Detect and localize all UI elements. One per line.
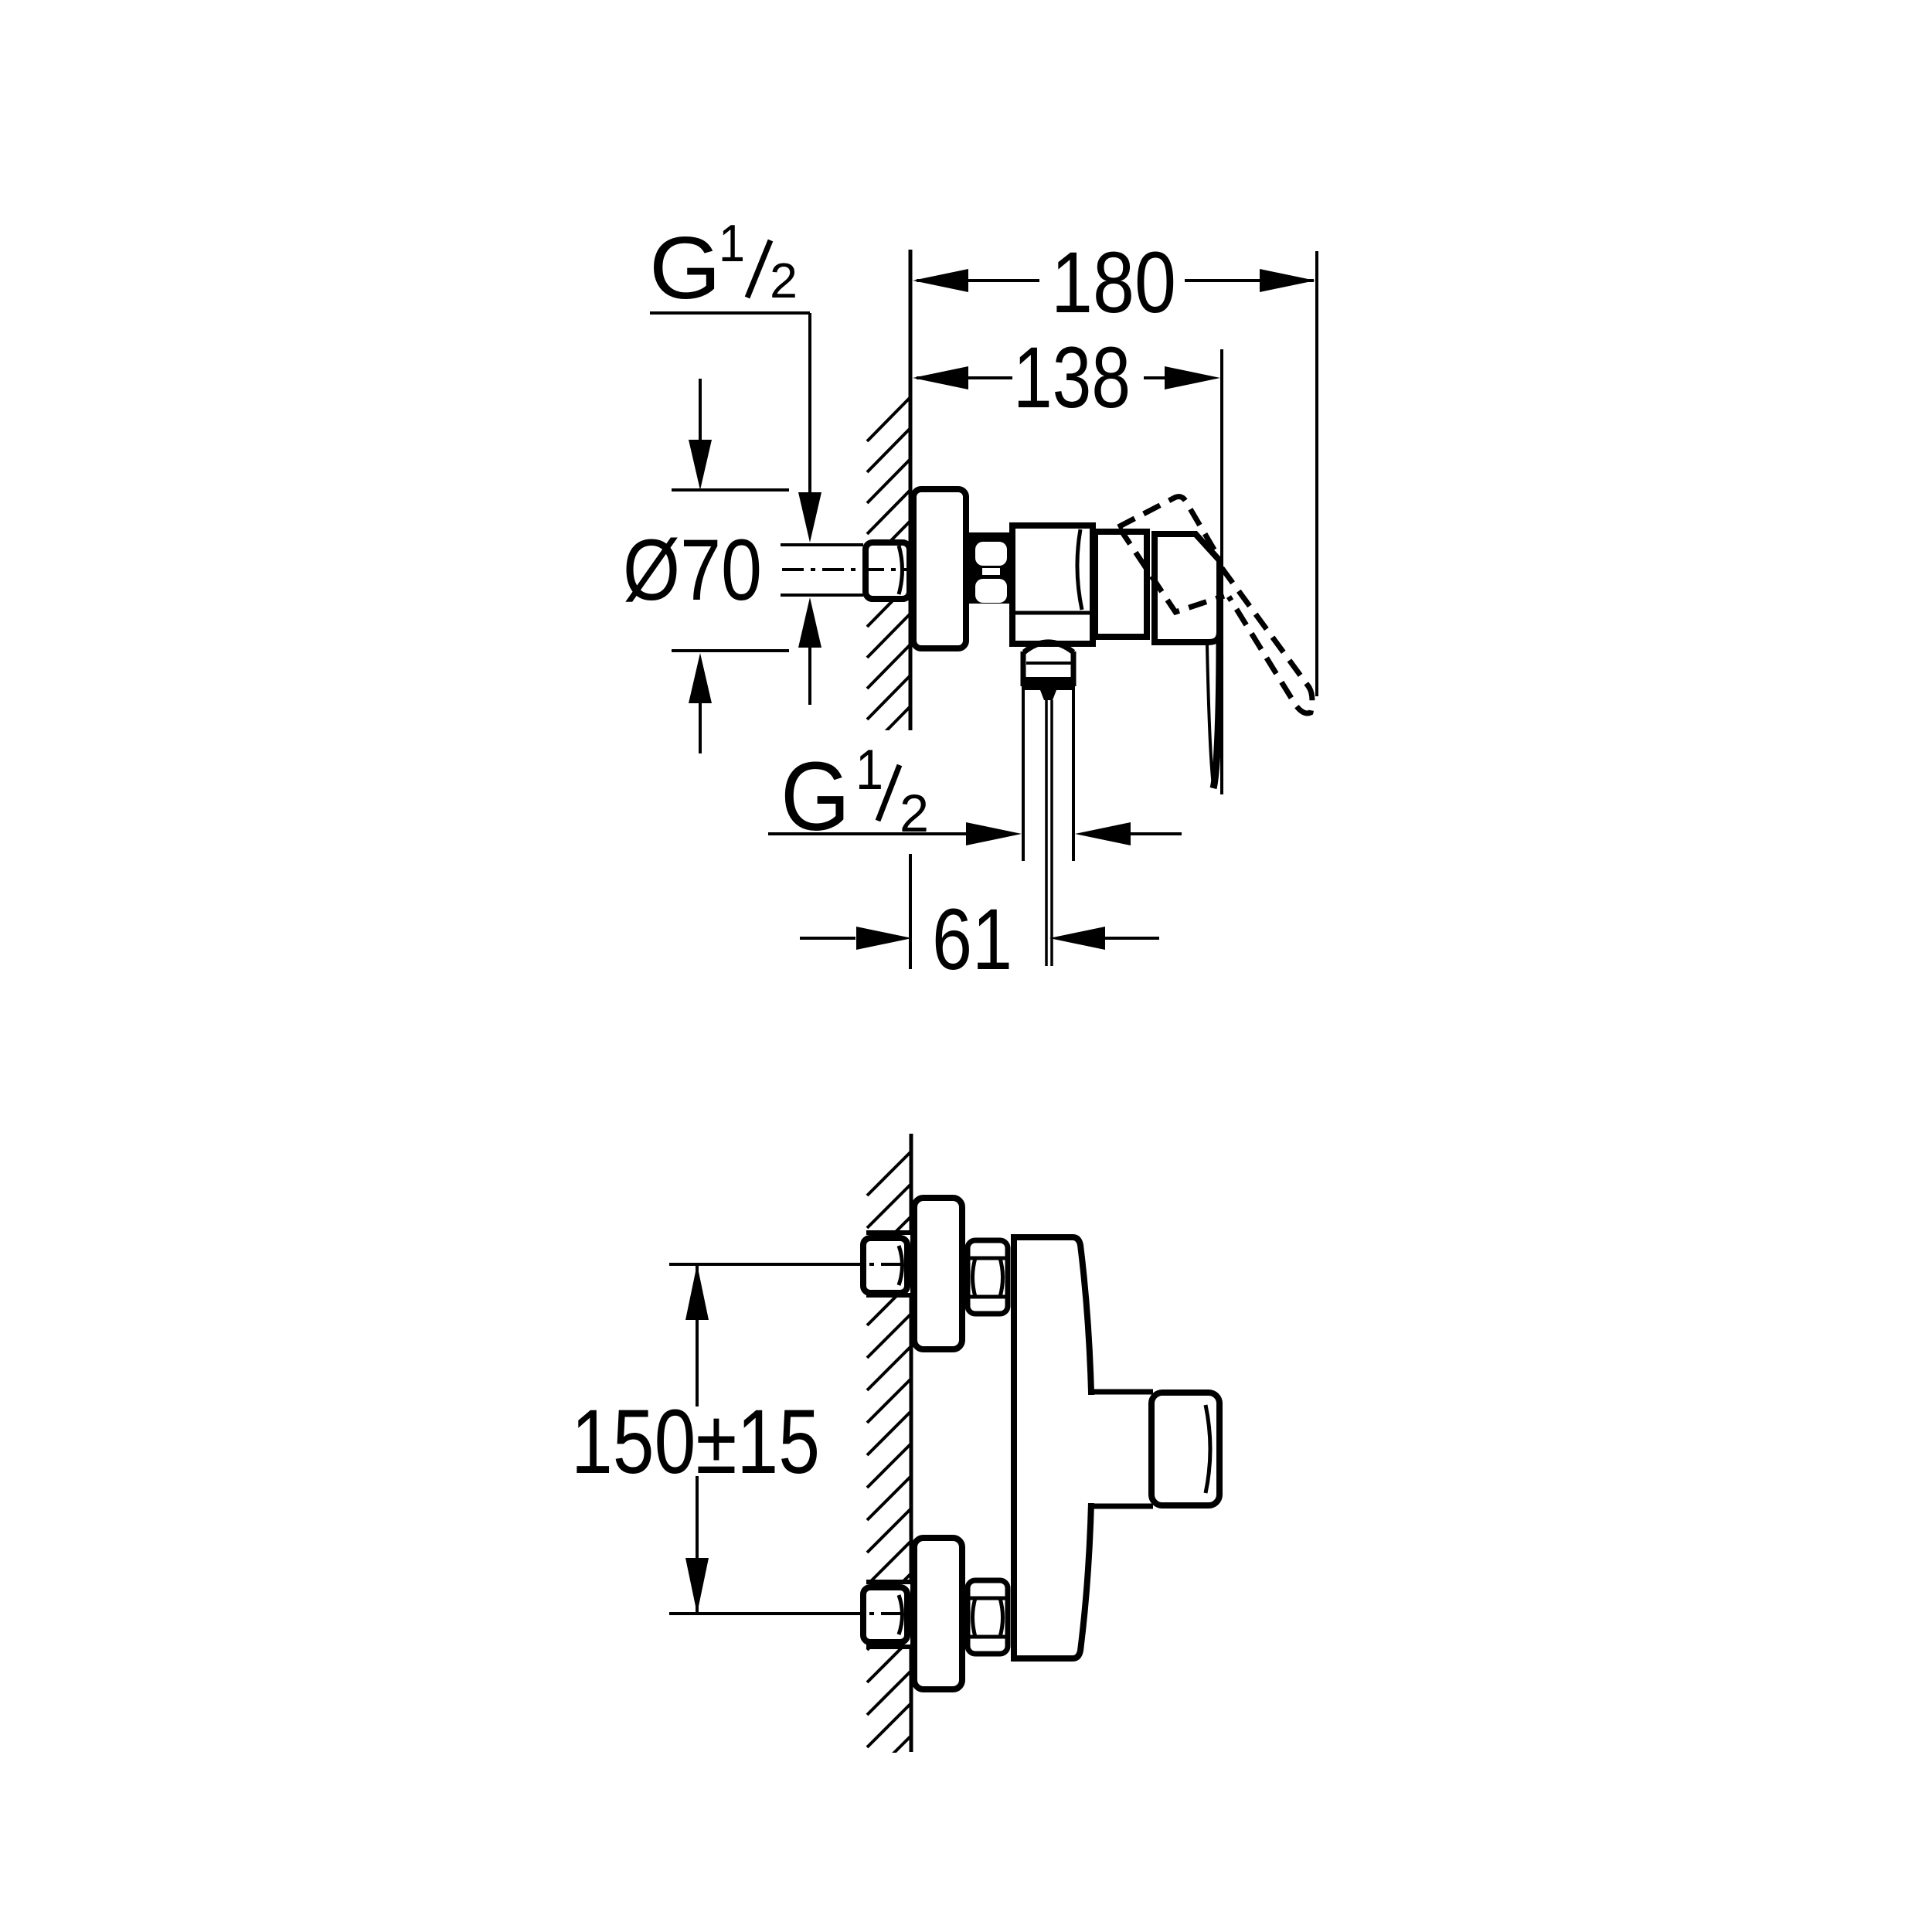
dimension 138	[913, 329, 1220, 426]
dimension 61	[800, 854, 1159, 988]
valve body (top figure)	[1012, 526, 1093, 644]
handle neck (bottom figure)	[1087, 1392, 1153, 1506]
dimension 150±15	[571, 1264, 861, 1614]
dimension Ø70	[623, 379, 789, 753]
bottom centerline dash-dot	[842, 1612, 913, 1615]
wall hatching (top figure)	[867, 397, 910, 781]
svg-text:180: 180	[1051, 234, 1176, 331]
wall hatching (bottom figure)	[867, 1151, 911, 1812]
svg-text:1: 1	[855, 739, 883, 801]
svg-text:Ø70: Ø70	[623, 522, 762, 618]
top centerline dash-dot	[842, 1263, 913, 1266]
stub centerline (dash-dot)	[782, 568, 914, 571]
leader G1/2 top	[650, 313, 821, 705]
supply stub ticks (G1/2 extension lines)	[781, 543, 863, 546]
handle lever (solid)	[1213, 638, 1219, 788]
cartridge arc inside body	[1077, 529, 1082, 610]
outlet tube	[1022, 686, 1025, 861]
svg-text:150±15: 150±15	[571, 1391, 820, 1493]
label G 1/2 (top)	[649, 214, 798, 318]
top rosette (bottom figure)	[914, 1198, 962, 1349]
top hex nut (bottom figure)	[863, 1238, 907, 1293]
cartridge cap	[1095, 532, 1147, 637]
handle knob (bottom figure)	[1151, 1393, 1219, 1505]
svg-text:61: 61	[932, 891, 1012, 988]
wall line (bottom figure)	[910, 1134, 913, 1752]
outlet block	[1023, 651, 1073, 700]
bottom hex nut (bottom figure)	[863, 1587, 907, 1642]
outlet dome	[1024, 642, 1073, 652]
valve body (bottom figure, front view)	[1014, 1237, 1092, 1658]
138 right extension line	[1220, 349, 1223, 794]
dimension 180	[913, 234, 1315, 331]
leader / dimension G1/2 bottom	[768, 822, 1182, 845]
handle base (solid)	[1155, 534, 1219, 642]
label G 1/2 (bottom of top figure)	[781, 739, 929, 851]
escutcheon rosette (top figure)	[913, 489, 966, 648]
body internal line	[1014, 611, 1091, 615]
svg-text:138: 138	[1013, 329, 1131, 426]
180 right extension line	[1315, 251, 1318, 696]
supply stub hex nut at wall	[866, 543, 910, 599]
hose nipple	[1045, 700, 1048, 966]
svg-text:G: G	[649, 219, 721, 318]
svg-text:2: 2	[770, 253, 798, 308]
top supply pipe (bottom figure)	[866, 1230, 910, 1298]
wall line (top figure, also 180/138 left extension)	[909, 250, 913, 730]
dashed handle (open position)	[1118, 497, 1312, 713]
svg-text:1: 1	[719, 214, 745, 273]
top union nut (bottom figure)	[968, 1240, 1008, 1314]
bottom union nut (bottom figure)	[968, 1580, 1008, 1654]
bottom rosette (bottom figure)	[914, 1538, 962, 1689]
bottom supply pipe (bottom figure)	[866, 1580, 910, 1647]
union nut (top figure)	[966, 532, 1014, 604]
